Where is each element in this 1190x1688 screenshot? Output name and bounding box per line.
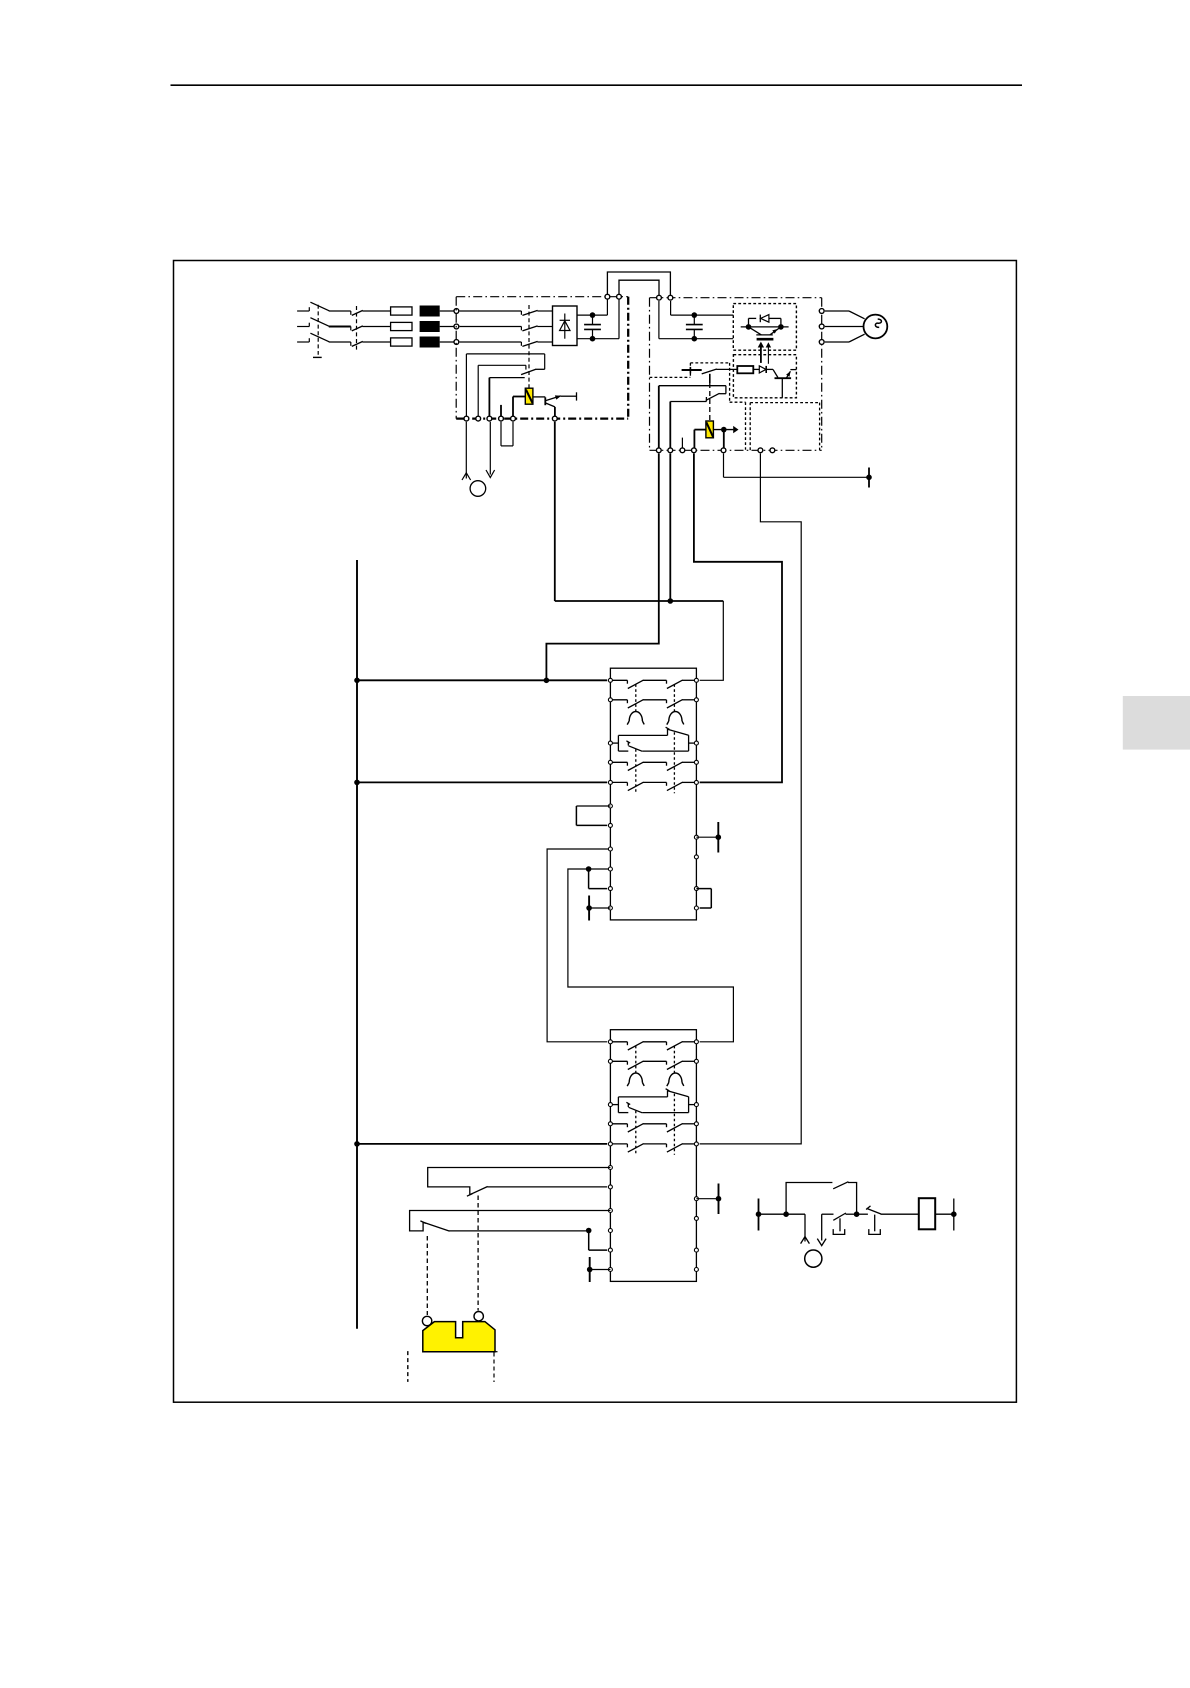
bus feed to relay 1 channel row xyxy=(357,678,607,684)
driver transistor xyxy=(766,369,796,397)
disconnect switch Q1 xyxy=(297,302,351,357)
relay A2 left terminals xyxy=(608,1040,612,1272)
RFI switch contact xyxy=(466,354,544,378)
safety relay coil K2 (yellow) xyxy=(513,388,545,404)
DC bus capacitor C1 xyxy=(584,312,601,341)
relay A1 right shield clamp xyxy=(696,822,721,853)
DC bus capacitor C2 xyxy=(686,312,703,341)
rectifier bridge xyxy=(553,306,578,346)
relay A2 linkage dashes xyxy=(636,1046,675,1155)
brake chopper option box xyxy=(750,403,819,451)
bus feed to relay 2 lower row xyxy=(357,1143,607,1145)
relay A1 coil actuator arcs xyxy=(627,712,684,725)
gate drive arrows xyxy=(758,342,771,364)
relay A1 left terminals xyxy=(608,678,612,910)
bus feed to relay 1 lower row xyxy=(357,781,607,783)
relay linkage (dashed) xyxy=(709,374,711,421)
relay A2 coil actuator arcs xyxy=(627,1073,684,1086)
fuses F1-F3 xyxy=(391,307,412,346)
driver diode xyxy=(753,366,766,373)
DC rails (right box) xyxy=(659,301,733,339)
safe-stop dotted partition xyxy=(650,363,746,450)
DC link jumper (outer) xyxy=(607,272,670,295)
guard switch linkage dashes xyxy=(427,1196,478,1316)
wire: terminal 37 to relays supply bus xyxy=(546,454,658,681)
relay A2 right shield clamp xyxy=(696,1184,721,1215)
DC link jumper (inner) xyxy=(619,280,659,295)
wire: control terminal via cross rail to relay 1 xyxy=(555,422,724,681)
jumper loop terminals 20-27 xyxy=(501,422,513,446)
right box bottom control terminals xyxy=(656,448,774,453)
external relay coil K4 xyxy=(919,1198,935,1229)
monitor contact with actuator 1 xyxy=(833,1213,856,1234)
gate supply resistor xyxy=(737,366,753,373)
relay A1 linkage dashes xyxy=(636,684,675,793)
wire: drive terminal to relay 1 feedback row xyxy=(694,454,782,783)
relay A1 right terminals xyxy=(694,678,698,910)
guard switch contact B xyxy=(410,1211,611,1232)
guard switch S (yellow cam) xyxy=(408,1312,498,1383)
inrush contactor K1 poles xyxy=(460,305,553,388)
PE earthing arrows and terminal xyxy=(462,422,495,497)
IGBT with anti-parallel diode xyxy=(741,315,789,340)
external circuit left terminal post xyxy=(756,1199,805,1231)
relay1 output to relay2 right side wire xyxy=(568,866,734,1042)
left box top DC terminals xyxy=(605,294,621,299)
inverter section (dash-dot enclosure) xyxy=(650,298,822,451)
monitor contact with actuator 2 xyxy=(857,1206,919,1235)
switch S2 (mains contactor poles) xyxy=(351,306,391,350)
coil output node with arrow xyxy=(682,426,738,450)
line chokes L1-L3 xyxy=(420,306,440,348)
relay A1 channel contacts rows 1-2 xyxy=(610,680,696,708)
relay1 to relay2 chain wire xyxy=(547,849,610,1042)
DC bus rails (left) xyxy=(577,297,619,339)
relay A2 channel contacts rows 4-5 xyxy=(610,1124,696,1153)
transistor Q2 xyxy=(545,392,576,418)
safe stop contact 2 xyxy=(659,386,726,451)
motor earth clamp xyxy=(724,454,872,488)
relay A1 monitoring mechanism xyxy=(610,727,696,751)
motor M xyxy=(825,311,887,342)
wire: drive terminal to cross rail xyxy=(668,454,674,604)
diagram frame xyxy=(174,261,1017,1403)
plug-in link arrows and lamp xyxy=(801,1214,834,1267)
relay A2 monitoring mechanism xyxy=(610,1089,696,1113)
relay A1 channel contacts rows 4-5 xyxy=(610,762,696,791)
wire: drive terminal to relay 2 feedback row xyxy=(700,454,802,1144)
relay A2 channel contacts rows 1-2 xyxy=(610,1042,696,1070)
relay A1 reset jumper with node xyxy=(589,869,608,889)
drive input terminal circles xyxy=(454,309,459,345)
internal control wires (left box) xyxy=(466,354,513,419)
relay A2 left shield clamp xyxy=(587,1257,611,1282)
right box top DC terminals xyxy=(657,295,673,300)
motor output terminals U V W xyxy=(819,309,824,345)
page tab marker xyxy=(1123,696,1190,750)
gate driver box xyxy=(733,355,796,398)
relay A1 right jumper loop xyxy=(696,889,711,908)
safety relay module A1 outline xyxy=(610,668,696,920)
external circuit right terminal post xyxy=(935,1199,956,1231)
wires to drive input terminals xyxy=(440,311,457,342)
relay A2 right terminals xyxy=(694,1040,698,1272)
safety relay coil K3 (yellow) xyxy=(670,402,713,451)
guard switch contact A xyxy=(428,1168,611,1197)
bypass contact loop xyxy=(786,1182,859,1217)
left box bottom control terminals xyxy=(464,416,557,421)
frequency converter power section (dash-dot enclosure) xyxy=(456,297,628,419)
+24V supply bus xyxy=(354,560,360,1329)
header rule xyxy=(171,84,1023,86)
relay A1 left jumper loop xyxy=(576,806,610,825)
safe stop contact 1 xyxy=(682,367,738,374)
IGBT module box xyxy=(733,304,796,351)
safety relay module A2 outline xyxy=(610,1030,696,1282)
relay A1 left shield clamp xyxy=(586,896,610,921)
relay A2 reset jumper with node xyxy=(586,1228,607,1250)
